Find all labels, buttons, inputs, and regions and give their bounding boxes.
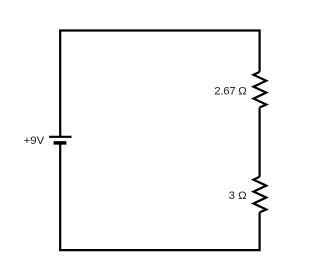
svg-text:2.67 Ω: 2.67 Ω	[214, 85, 247, 97]
svg-text:3 Ω: 3 Ω	[229, 190, 247, 202]
svg-text:+9V: +9V	[24, 135, 45, 147]
